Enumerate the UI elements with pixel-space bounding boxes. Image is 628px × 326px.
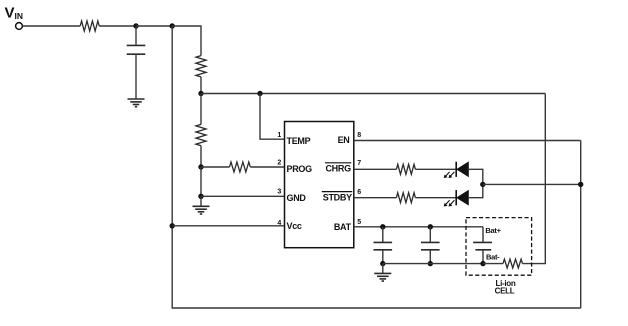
junction bottom node C2 [380,261,385,266]
wire battery neg to R6 [483,263,503,265]
wire bottom cap rail [383,263,483,265]
resistor R3 (PROG set) [230,162,251,172]
junction node B (left vertical) [170,23,175,28]
wire R4 to LED D1 [415,168,456,170]
svg-text:2: 2 [277,159,281,166]
junction battery negative node [480,261,485,266]
junction BAT node C3 [428,224,433,229]
resistor R1 (upper divider) [196,56,206,77]
junction GND node [198,194,203,199]
wire GND node to pin 3 [201,195,285,197]
svg-text:6: 6 [357,189,361,196]
LED D2 (STDBY indicator) [455,190,457,205]
wire R3 to pin 2 [250,166,284,168]
wire net94 down to cell resistor [523,94,546,264]
wire LED D2 to join [468,184,483,197]
LED D1 (CHRG indicator) [455,162,457,177]
svg-text:EN: EN [338,135,350,145]
capacitor C2 (BAT filter) [382,227,384,243]
input terminal VIN (open circle) [16,23,23,30]
svg-text:3: 3 [277,189,281,196]
wire STDBY pin 6 to R5 [354,197,397,199]
junction BAT node C2 [380,224,385,229]
svg-text:1: 1 [277,132,281,139]
wire input resistor to node A [99,25,136,27]
wire R5 to LED D2 [415,197,456,199]
svg-text:BAT: BAT [334,222,352,232]
svg-text:5: 5 [357,219,361,226]
wire Vcc node to pin 4 [172,225,284,227]
junction node A (input cap) [133,23,138,28]
wire left rail Vcc node to bottom rail [172,226,581,308]
wire node B to divider top corner [172,26,201,56]
wire net94 node to R2 [200,94,202,125]
resistor R6 (cell internal) [503,259,523,268]
svg-text:7: 7 [357,160,361,167]
wire R1 to net94 node [200,77,202,94]
wire VIN to input resistor [23,25,81,27]
resistor R2 (lower divider) [196,124,206,145]
svg-text:4: 4 [277,220,281,227]
svg-text:CELL: CELL [495,287,515,296]
capacitor C3 (BAT filter) [429,227,431,243]
svg-text:STDBY: STDBY [323,193,352,203]
junction net94 at divider [198,91,203,96]
ground G3 (BAT caps) [382,264,384,274]
junction PROG node [198,164,203,169]
battery cell BT1 [482,227,484,243]
ground G2 (IC GND) [200,196,202,206]
resistor R4 (CHRG LED) [396,164,415,174]
op-amp/charger IC U1 body [285,122,354,248]
junction LED join node [480,182,485,187]
wire left rail down to Vcc node [171,26,173,226]
resistor R-input (series input) [80,21,99,31]
wire right vertical EN down to bottom rail [580,141,582,309]
capacitor C-input [135,26,137,45]
wire LED join to EN vertical [483,183,581,185]
wire PROG node to R3 [201,166,230,168]
svg-text:Vcc: Vcc [287,221,302,231]
wire BAT pin 5 to battery [354,226,483,228]
wire R2 to PROG node [200,146,202,167]
junction LED net on EN vertical [578,182,583,187]
wire LED D1 to join [468,169,483,184]
Li-ion cell enclosure (dashed) [466,218,532,276]
svg-text:CHRG: CHRG [325,164,351,174]
svg-text:8: 8 [357,132,361,139]
ground G1 (input cap) [128,98,145,100]
svg-text:TEMP: TEMP [287,136,311,146]
junction Vcc node on left rail [170,223,175,228]
wire node A to node B [136,25,172,27]
resistor R5 (STDBY LED) [396,193,415,203]
svg-text:PROG: PROG [287,164,313,174]
svg-text:Bat+: Bat+ [485,226,501,235]
junction bottom node C3 [428,261,433,266]
wire EN pin 8 to right vertical [354,140,581,142]
junction net94 TEMP branch [257,91,262,96]
svg-text:VIN: VIN [5,4,24,21]
wire net94 horizontal run [201,93,545,95]
svg-text:Bat-: Bat- [486,252,500,261]
wire PROG node down to GND node [200,167,202,196]
svg-text:GND: GND [287,193,307,203]
wire TEMP branch down to pin 1 [260,94,285,140]
wire CHRG pin 7 to R4 [354,168,397,170]
